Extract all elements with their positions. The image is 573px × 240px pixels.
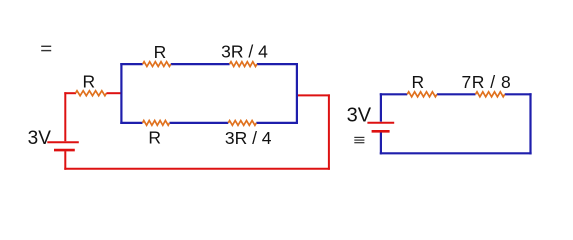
- resistor R (right circuit): [407, 92, 437, 97]
- node: equivalence sign "=": [41, 46, 51, 52]
- resistor R (series, left): [76, 91, 107, 96]
- resistor 3R/4 (top branch): [230, 62, 257, 67]
- wire: blue left vertical upper (right circuit): [380, 93, 382, 121]
- svg-text:3V: 3V: [28, 128, 52, 149]
- wire: red bottom return (left circuit): [64, 168, 330, 170]
- svg-text:R: R: [154, 42, 167, 62]
- svg-text:R: R: [411, 72, 424, 92]
- wire: blue left vertical of parallel block: [120, 63, 122, 124]
- wire: blue left vertical lower (right circuit): [380, 133, 382, 155]
- svg-text:3R / 4: 3R / 4: [225, 128, 272, 148]
- wire: blue bottom (right circuit): [380, 152, 532, 154]
- svg-text:3R / 4: 3R / 4: [221, 42, 268, 62]
- wire: red right vertical (left circuit): [328, 94, 330, 169]
- wire: blue right vertical (right circuit): [529, 93, 531, 154]
- wire: blue top branch segments (right circuit): [380, 93, 532, 95]
- wire: red stub resistor R to parallel block left node: [106, 92, 122, 94]
- node: equivalence sign (three bars): [354, 137, 364, 144]
- svg-text:R: R: [148, 128, 161, 148]
- resistor R (top branch): [143, 62, 171, 67]
- wire: blue top branch segments: [120, 63, 298, 65]
- wire: blue bottom branch segments: [120, 122, 298, 124]
- resistor R (bottom branch): [143, 121, 170, 126]
- resistor 3R/4 (bottom branch): [228, 121, 256, 126]
- battery B2 3V (right circuit plates): [367, 123, 394, 132]
- wire: blue right vertical of parallel block: [296, 63, 298, 124]
- wire: red stub battery to resistor R: [64, 92, 76, 94]
- battery B1 3V (left circuit): [47, 92, 79, 170]
- wire: red horizontal to parallel block right node: [297, 94, 330, 96]
- svg-text:7R / 8: 7R / 8: [462, 72, 512, 92]
- svg-text:R: R: [82, 72, 95, 92]
- resistor 7R/8 (right circuit): [476, 92, 505, 97]
